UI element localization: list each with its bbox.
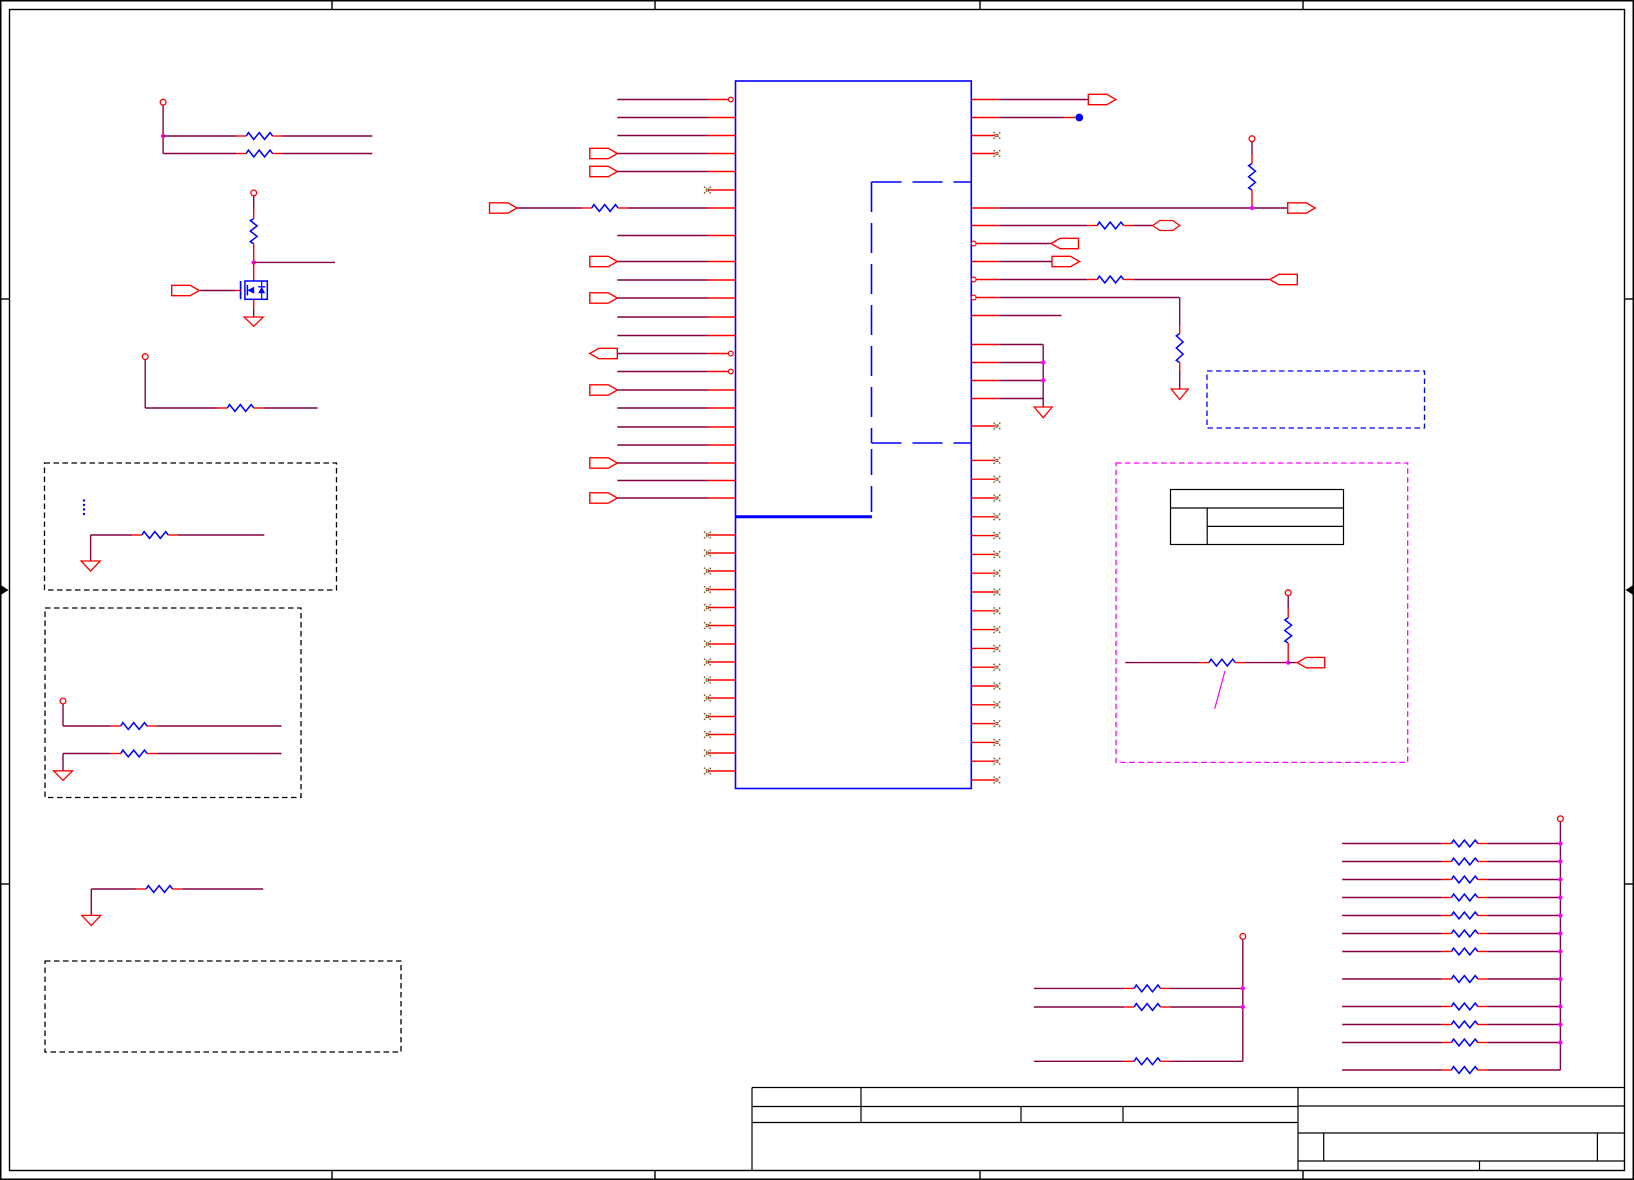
U1 right pin 13 wire [971, 362, 1043, 364]
wire R28 to bus [1170, 987, 1243, 989]
junction [1558, 895, 1562, 899]
option box 3 (dashed) [45, 961, 401, 1052]
port P2 [590, 166, 618, 176]
junction [1558, 859, 1562, 863]
resistor R27 [1442, 1067, 1488, 1074]
resistor R18 [1442, 876, 1488, 883]
resistor R25 [1442, 1021, 1488, 1028]
note box (blue dashed) [1207, 371, 1425, 428]
junction node [252, 260, 256, 264]
U1 right pin 1 wire [971, 99, 1088, 101]
resistor R29 [1124, 1004, 1170, 1011]
wire gate [200, 290, 240, 292]
ground GND4 [81, 561, 100, 571]
no-connect U1 left pin 35 [704, 750, 735, 757]
IC U1 [736, 81, 972, 789]
U1 left pin 14 wire (inverted) [617, 351, 733, 356]
wire to R21 [1342, 933, 1441, 935]
no-connect U1 right pin 20 [971, 513, 1000, 520]
junction [1041, 360, 1045, 364]
no-connect U1 right pin 33 [971, 758, 1000, 765]
port P7 [590, 385, 618, 395]
port P9 [590, 493, 618, 503]
ground GND1 [1171, 389, 1188, 400]
power pin VCC7 [1558, 816, 1564, 822]
port P13 (input) [1051, 238, 1079, 248]
power pin VCC2 [160, 99, 166, 105]
U1 right pin 9 wire (inverted) [971, 277, 1087, 282]
U1 right pin 11 wire [971, 315, 1061, 317]
resistor R23 [1442, 976, 1488, 983]
wire to R26 [1342, 1042, 1441, 1044]
wire to R19 [1342, 897, 1441, 899]
power bus wire [1242, 939, 1244, 1061]
no-connect U1 right pin 18 [971, 476, 1000, 483]
wire to R27 [1342, 1069, 1441, 1071]
no-connect U1 left pin 31 [704, 677, 735, 684]
port P3 [490, 203, 518, 213]
junction [1286, 660, 1290, 664]
net stub terminal (blue dot) [1075, 114, 1083, 122]
wire port P3 to R1 [517, 207, 582, 209]
port P4 [590, 256, 618, 266]
U1 left pin 12 wire [617, 316, 735, 318]
continuation dots [83, 499, 85, 515]
wire R23 to bus [1488, 978, 1561, 980]
wire R30 to bus [1170, 1060, 1243, 1062]
U1 left pin 13 wire [617, 335, 735, 337]
resistor R8 (pull-up) [250, 196, 257, 263]
no-connect U1 right pin 34 [971, 777, 1000, 784]
wire from R12 [157, 753, 282, 755]
wire to R30 [1034, 1060, 1124, 1062]
U1 right pin 15 wire [971, 398, 1043, 400]
junction [1558, 949, 1562, 953]
U1 right pin 12 wire [971, 344, 1043, 346]
wire from R6 [282, 135, 372, 137]
U1 left pin 21 wire [617, 480, 735, 482]
resistor R13 [136, 886, 182, 893]
resistor R17 [1442, 858, 1488, 865]
wire Q1 source to ground [253, 299, 255, 317]
U1 right pin 8 wire [971, 261, 1052, 263]
U1 left pin 4 wire [617, 153, 735, 155]
wire VCC2 down [162, 105, 164, 154]
no-connect U1 left pin 34 [704, 731, 735, 738]
no-connect U1 right pin 27 [971, 645, 1000, 652]
U1 section divider (thick) [736, 515, 872, 518]
transistor Q1 (N-MOSFET) [241, 281, 268, 299]
no-connect U1 left pin 23 [704, 532, 735, 539]
port P11 [1288, 203, 1316, 213]
power pin VCC8 [1240, 934, 1246, 940]
no-connect U1 right pin 23 [971, 570, 1000, 577]
resistor R2 (pull-up) [1249, 142, 1256, 208]
wire to R7 [163, 153, 236, 155]
wire to R17 [1342, 861, 1441, 863]
variant marker (magenta slash) [1215, 671, 1225, 709]
no-connect U1 right pin 21 [971, 532, 1000, 539]
junction on pin 5 net [1250, 206, 1254, 210]
port P15 (input) [1270, 274, 1298, 284]
no-connect U1 left pin 33 [704, 713, 735, 720]
U1 left pin 22 wire [617, 497, 735, 499]
resistor R7 [236, 150, 282, 157]
no-connect U1 right pin 30 [971, 701, 1000, 708]
no-connect U1 left pin 36 [704, 768, 735, 775]
U1 right pin 14 wire [971, 380, 1043, 382]
junction [1558, 877, 1562, 881]
junction [1558, 913, 1562, 917]
U1 right pin 2 wire [971, 117, 1075, 119]
no-connect U1 left pin 32 [704, 695, 735, 702]
option box 2 (dashed) [45, 608, 301, 798]
U1 left pin 5 wire [617, 171, 735, 173]
no-connect U1 right pin 16 [971, 423, 1000, 430]
wire to R15 [1125, 662, 1199, 664]
wire to R6 [163, 135, 236, 137]
no-connect U1 right pin 17 [971, 457, 1000, 464]
wire node right [254, 261, 335, 263]
U1 left pin 2 wire [617, 117, 735, 119]
wire R24 to bus [1488, 1006, 1561, 1008]
table [1171, 490, 1344, 545]
port P8 [590, 458, 618, 468]
wire from R13 [182, 888, 263, 890]
U1 left pin 17 wire [617, 407, 735, 409]
wire to R28 [1034, 987, 1124, 989]
power pin VCC3 [251, 190, 257, 196]
no-connect U1 right pin 26 [971, 626, 1000, 633]
wire R25 to bus [1488, 1024, 1561, 1026]
power pin VCC4 [142, 354, 148, 360]
no-connect U1 right pin 31 [971, 720, 1000, 727]
title block [752, 1088, 1625, 1171]
junction [1558, 1004, 1562, 1008]
ground GND6 [82, 915, 101, 925]
wire to R25 [1342, 1024, 1441, 1026]
no-connect U1 right pin 24 [971, 589, 1000, 596]
resistor R6 [236, 133, 282, 140]
no-connect U1 left pin 29 [704, 641, 735, 648]
wire down to ground [90, 535, 92, 561]
resistor R22 [1442, 948, 1488, 955]
U1 right pin 10 wire (inverted) [971, 295, 1179, 300]
resistor R1 [582, 205, 628, 212]
U1 left pin 15 wire (inverted) [617, 369, 733, 374]
resistor R9 [217, 405, 263, 412]
U1 left pin 3 wire [617, 135, 735, 137]
wire R17 to bus [1488, 861, 1561, 863]
power pin VCC6 [1285, 590, 1291, 596]
wire R3 to port P12 [1133, 225, 1153, 227]
resistor R28 [1124, 985, 1170, 992]
U1 left pin 20 wire [617, 462, 735, 464]
wire to R20 [1342, 915, 1441, 917]
wire down [144, 360, 146, 409]
resistor R16 [1442, 840, 1488, 847]
port P16 (gate) [172, 285, 200, 295]
junction [1558, 977, 1562, 981]
resistor R10 [132, 532, 178, 539]
junction [1558, 1022, 1562, 1026]
wire to R9 [145, 407, 217, 409]
wire from R10 [178, 534, 264, 536]
resistor R3 [1087, 222, 1133, 229]
no-connect U1 right pin 3 [971, 132, 1000, 139]
no-connect U1 right pin 22 [971, 551, 1000, 558]
wire R29 to bus [1170, 1006, 1243, 1008]
port P17 (input) [1297, 657, 1325, 667]
no-connect U1 right pin 4 [971, 150, 1000, 157]
U1 left pin 1 wire (inverted) [617, 97, 733, 102]
wire to R29 [1034, 1006, 1124, 1008]
wire from R9 [263, 407, 317, 409]
wire to R12 [63, 753, 111, 755]
wire to R23 [1342, 978, 1441, 980]
no-connect U1 left pin 6 [704, 187, 735, 194]
no-connect U1 left pin 28 [704, 622, 735, 629]
wire R1 to U1 pin 7 [628, 207, 736, 209]
port P6 (input) [590, 348, 618, 358]
junction [1241, 1005, 1245, 1009]
no-connect U1 right pin 29 [971, 683, 1000, 690]
junction [1558, 931, 1562, 935]
no-connect U1 left pin 26 [704, 586, 735, 593]
wire R19 to bus [1488, 897, 1561, 899]
no-connect U1 right pin 28 [971, 664, 1000, 671]
wire node to port [1288, 662, 1297, 664]
resistor R19 [1442, 894, 1488, 901]
resistor R21 [1442, 930, 1488, 937]
resistor R24 [1442, 1003, 1488, 1010]
resistor R4 [1087, 276, 1133, 283]
ground GND5 [54, 771, 73, 781]
wire to R18 [1342, 879, 1441, 881]
wire R21 to bus [1488, 933, 1561, 935]
option box (dashed) [45, 463, 337, 590]
wire down [62, 704, 64, 726]
wire to R11 [63, 725, 111, 727]
no-connect U1 right pin 32 [971, 739, 1000, 746]
port P1 [590, 148, 618, 158]
wire to R16 [1342, 843, 1441, 845]
ground GND3 [244, 317, 263, 326]
ground bus wire [1042, 345, 1044, 408]
wire R18 to bus [1488, 879, 1561, 881]
no-connect U1 left pin 25 [704, 568, 735, 575]
wire down to ground [90, 889, 92, 915]
no-connect U1 right pin 19 [971, 495, 1000, 502]
U1 left pin 10 wire [617, 279, 735, 281]
wire R27 to bus [1488, 1069, 1561, 1071]
U1 left pin 18 wire [617, 426, 735, 428]
no-connect U1 right pin 25 [971, 607, 1000, 614]
wire to R22 [1342, 951, 1441, 953]
ground GND2 [1034, 407, 1052, 418]
port P14 [1052, 256, 1080, 266]
variant box (magenta dashed) [1116, 463, 1408, 762]
wire node to Q1 drain [253, 262, 255, 281]
wire R15 to node [1245, 662, 1288, 664]
wire to R24 [1342, 1006, 1441, 1008]
power pin VCC1 [1249, 136, 1255, 142]
no-connect U1 left pin 30 [704, 659, 735, 666]
wire R20 to bus [1488, 915, 1561, 917]
U1 right pin 5 wire [971, 207, 1287, 209]
U1 left pin 19 wire [617, 444, 735, 446]
resistor R30 [1124, 1058, 1170, 1065]
power pin VCC5 [60, 698, 66, 704]
resistor R14 (pull-up) [1285, 596, 1292, 663]
wire R26 to bus [1488, 1042, 1561, 1044]
resistor R11 [111, 723, 157, 730]
power bus wire [1559, 822, 1561, 1070]
wire from R7 [282, 153, 372, 155]
wire to R13 [91, 888, 136, 890]
resistor R15 [1199, 659, 1245, 666]
no-connect U1 left pin 24 [704, 550, 735, 557]
wire R4 to port P15 [1133, 279, 1270, 281]
junction [1558, 1040, 1562, 1044]
wire from R11 [157, 725, 282, 727]
resistor R5 (to ground) [1176, 298, 1183, 390]
resistor R26 [1442, 1039, 1488, 1046]
junction [1241, 986, 1245, 990]
U1 left pin 8 wire [617, 235, 735, 237]
port P10 [1088, 94, 1116, 104]
resistor R12 [111, 750, 157, 757]
U1 left pin 9 wire [617, 261, 735, 263]
port P5 [590, 293, 618, 303]
U1 right pin 6 wire [971, 225, 1087, 227]
junction [1041, 378, 1045, 382]
no-connect U1 left pin 27 [704, 604, 735, 611]
U1 left pin 11 wire [617, 297, 735, 299]
junction [161, 134, 165, 138]
wire R16 to bus [1488, 843, 1561, 845]
U1 left pin 16 wire [617, 389, 735, 391]
wire down to ground [62, 754, 64, 771]
wire R22 to bus [1488, 951, 1561, 953]
junction [1558, 841, 1562, 845]
port P12 (bidirectional) [1153, 221, 1180, 231]
U1 right pin 7 wire (inverted) [971, 241, 1051, 246]
U1 internal dashed block [872, 182, 972, 517]
resistor R20 [1442, 912, 1488, 919]
wire to R10 [91, 534, 132, 536]
